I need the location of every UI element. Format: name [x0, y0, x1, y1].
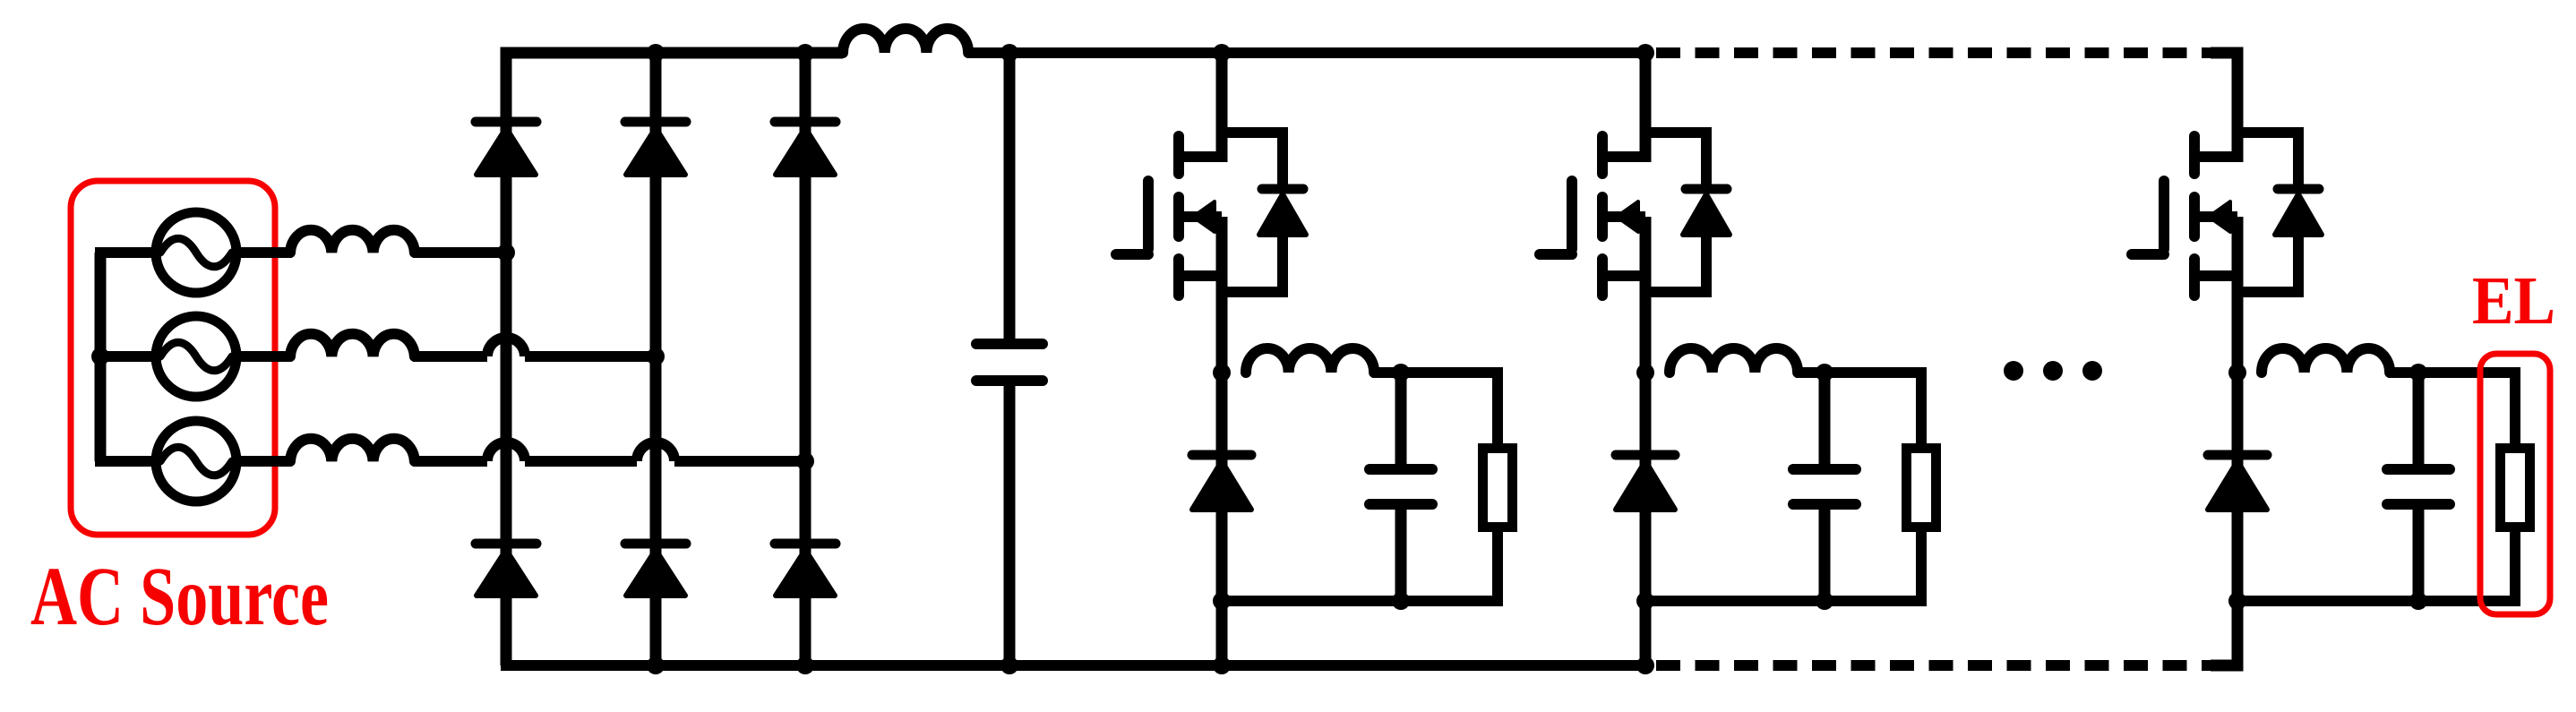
junction dot: stage 2 leg / bottom bus	[1636, 656, 1654, 674]
AC voltage source V1: sine symbol	[160, 238, 232, 267]
MOSFET Q1 arrow head	[1193, 202, 1215, 232]
junction dot: stage 2 rail / switch leg	[1636, 592, 1654, 610]
AC Source red boundary box	[71, 181, 275, 535]
wire: neutral bus (left vertical)	[95, 253, 107, 461]
inductor Ldc (DC-link inductor on top bus)	[843, 29, 968, 53]
wire: neutral stub to source V2	[95, 351, 159, 362]
svg-text:EL: EL	[2472, 263, 2555, 339]
wire: stage 2 drain leg from top bus	[1640, 53, 1652, 162]
wire: stage 3 leg to dashed bottom bus	[2211, 601, 2237, 665]
wire: capacitor C3 upper leg	[2413, 373, 2425, 464]
MOSFET Q2 arrow head	[1617, 202, 1638, 232]
junction dot: stage 2 switch node	[1636, 364, 1654, 382]
wire: capacitor C3 lower leg	[2413, 510, 2425, 601]
junction dot: neutral bus / phase B	[91, 347, 109, 365]
diode D5 (lower rectifier leg 2)	[625, 539, 686, 549]
wire: stage 1 drain leg from top bus	[1216, 53, 1228, 162]
EL load resistor	[2501, 449, 2530, 528]
wire: phase C to first hop	[413, 456, 487, 467]
junction dot: stage 3 rail / capacitor	[2409, 592, 2427, 610]
diode D2 (upper rectifier leg 2)	[625, 117, 686, 127]
wire: stage 3 drain corner from dashed top bus	[2211, 53, 2237, 162]
inductor L2 (buck filter)	[1670, 348, 1798, 373]
wire: phase A from source to inductor	[233, 247, 292, 258]
MOSFET Q3 gate lead	[2132, 249, 2164, 260]
MOSFET Q3 gate bar	[2159, 181, 2169, 249]
MOSFET Q3 body arrow stub	[2198, 211, 2237, 222]
capacitor C1 top plate	[1370, 464, 1432, 475]
junction dot: stage 2 output node	[1816, 364, 1833, 382]
junction dot: stage 1 rail / capacitor	[1392, 592, 1410, 610]
capacitor C2 top plate	[1793, 464, 1856, 475]
inductor Ls3 (line inductor phase)	[290, 439, 415, 461]
wire: phase B to hop	[413, 351, 487, 362]
AC voltage source V3: circle	[156, 421, 236, 502]
wire: stage 1 inductor to load corner	[1372, 373, 1498, 450]
body diode of Q2	[1686, 184, 1727, 194]
AC voltage source V2: sine symbol	[160, 342, 232, 371]
wire hop: phase C over leg 1	[487, 442, 525, 461]
wire: phase C between hops	[525, 456, 637, 467]
wire: bottom bus (solid part)	[501, 660, 1653, 671]
AC voltage source V1: circle	[156, 212, 236, 293]
wire: capacitor C2 upper leg	[1819, 373, 1831, 464]
wire: rectifier leg 1 (vertical + top bus corner)	[506, 53, 843, 665]
capacitor C2 bottom plate	[1793, 499, 1856, 510]
AC voltage source V3: sine symbol	[160, 447, 232, 476]
capacitor Cdc bottom plate	[976, 375, 1043, 386]
wire: Cdc lower leg	[1004, 386, 1016, 665]
diode D1 (upper rectifier leg 1)	[476, 117, 537, 127]
diode D6 (lower rectifier leg 3)	[775, 539, 836, 549]
junction dot: stage 3 rail / switch leg	[2228, 592, 2246, 610]
EL red boundary box	[2480, 354, 2550, 614]
freewheeling diode Df3	[2208, 450, 2267, 460]
MOSFET Q1 body arrow stub	[1182, 211, 1222, 222]
wire: rectifier leg 3 (vertical)	[800, 53, 811, 665]
svg-text:AC Source: AC Source	[30, 551, 329, 643]
MOSFET Q3 drain stub	[2194, 151, 2237, 162]
wire: stage 3 inductor to load corner	[2388, 373, 2515, 450]
junction dot: leg 2 / bottom bus	[647, 656, 665, 674]
MOSFET Q1 channel bar (dashed)	[1173, 136, 1184, 174]
junction dot: phase A / leg 1	[497, 244, 515, 262]
MOSFET Q2 source stub	[1602, 270, 1645, 281]
junction dot: stage 2 rail / capacitor	[1816, 592, 1833, 610]
MOSFET Q3 body-diode branch bottom	[2237, 235, 2298, 292]
MOSFET Q1 source stub	[1179, 270, 1222, 281]
wire: phase B from source to inductor	[233, 351, 292, 362]
body diode of Q1	[1262, 184, 1303, 194]
diode D4 (lower rectifier leg 1)	[476, 539, 537, 549]
ellipsis dot 2 (more stages)	[2043, 361, 2063, 381]
wire: rectifier leg 2 (vertical)	[650, 53, 662, 665]
MOSFET Q2 gate bar	[1567, 181, 1577, 249]
inductor L1 (buck filter)	[1246, 348, 1374, 373]
capacitor Cdc top plate	[976, 339, 1043, 349]
MOSFET Q2 body-diode branch top	[1645, 133, 1706, 184]
wire: dashed top bus (repeated stages)	[1656, 47, 2214, 58]
junction dot: stage 3 output node	[2409, 364, 2427, 382]
resistor R1 (load)	[1483, 449, 1513, 528]
junction dot: leg 3 / top bus	[796, 44, 814, 62]
inductor Ls2 (line inductor phase)	[290, 334, 415, 356]
junction dot: phase B / leg 2	[647, 347, 665, 365]
wire: phase C to rectifier leg 3	[674, 456, 805, 467]
MOSFET Q1 drain stub	[1179, 151, 1222, 162]
capacitor C3 bottom plate	[2387, 499, 2450, 510]
MOSFET Q3 arrow head	[2209, 202, 2230, 232]
MOSFET Q2 drain stub	[1602, 151, 1645, 162]
junction dot: leg 3 / bottom bus	[796, 656, 814, 674]
junction dot: stage 1 leg / bottom bus	[1213, 656, 1231, 674]
wire: neutral stub to source V3	[95, 456, 159, 467]
junction dot: stage 1 drain / top bus	[1213, 44, 1231, 62]
wire: neutral stub to source V1	[95, 247, 159, 258]
ellipsis dot 3 (more stages)	[2082, 361, 2102, 381]
wire: capacitor C1 lower leg	[1395, 510, 1407, 601]
wire: phase C from source to inductor	[233, 456, 292, 467]
wire: phase A to rectifier leg 1	[413, 247, 506, 258]
AC voltage source V2: circle	[156, 316, 236, 397]
body diode of Q3	[2278, 184, 2319, 194]
wire: stage 1 load leg and return rail	[1222, 526, 1498, 601]
wire: stage 3 switch-node vertical	[2232, 217, 2244, 601]
wire: stage 2 switch-node vertical	[1640, 217, 1652, 665]
ellipsis dot 1 (more stages)	[2004, 361, 2023, 381]
junction dot: leg 2 / top bus	[647, 44, 665, 62]
wire: Cdc upper leg	[1004, 53, 1016, 339]
capacitor C1 bottom plate	[1370, 499, 1432, 510]
MOSFET Q1 gate bar	[1143, 181, 1154, 249]
wire: stage 2 load leg and return rail	[1645, 526, 1921, 601]
resistor R2 (load)	[1907, 449, 1936, 528]
junction dot: Cdc / bottom bus	[1000, 656, 1018, 674]
wire: capacitor C1 upper leg	[1395, 373, 1407, 464]
diode D3 (upper rectifier leg 3)	[775, 117, 836, 127]
junction dot: stage 1 switch node	[1213, 364, 1231, 382]
wire: top bus from Ldc to stage 2	[968, 47, 1653, 58]
MOSFET Q1 body-diode branch top	[1222, 133, 1283, 184]
wire: phase B to rectifier leg 2	[525, 351, 656, 362]
junction dot: stage 1 output node	[1392, 364, 1410, 382]
inductor Ls1 (line inductor phase)	[290, 230, 415, 253]
freewheeling diode Df2	[1616, 450, 1675, 460]
junction dot: stage 3 switch node	[2228, 364, 2246, 382]
junction dot: stage 2 drain / top bus	[1636, 44, 1654, 62]
MOSFET Q3 source stub	[2194, 270, 2237, 281]
MOSFET Q3 channel bar (dashed)	[2189, 136, 2200, 174]
wire hop: phase B over leg 1	[487, 338, 525, 356]
MOSFET Q2 body-diode branch bottom	[1645, 235, 1706, 292]
MOSFET Q2 body arrow stub	[1606, 211, 1645, 222]
junction dot: phase C / leg 3	[796, 452, 814, 470]
wire: stage 3 load leg and return rail	[2237, 526, 2515, 601]
wire: capacitor C2 lower leg	[1819, 510, 1831, 601]
wire: stage 2 inductor to load corner	[1796, 373, 1921, 450]
MOSFET Q2 channel bar (dashed)	[1597, 136, 1608, 174]
freewheeling diode Df1	[1192, 450, 1251, 460]
MOSFET Q1 body-diode branch bottom	[1222, 235, 1283, 292]
capacitor C3 top plate	[2387, 464, 2450, 475]
wire: stage 1 switch-node vertical	[1216, 217, 1228, 665]
MOSFET Q3 body-diode branch top	[2237, 133, 2298, 184]
MOSFET Q2 gate lead	[1540, 249, 1572, 260]
MOSFET Q1 gate lead	[1116, 249, 1148, 260]
wire hop: phase C over leg 2	[637, 442, 674, 461]
inductor L3 (buck filter)	[2262, 348, 2390, 373]
wire: dashed bottom bus (repeated stages)	[1656, 660, 2214, 671]
junction dot: Cdc / top bus	[1000, 44, 1018, 62]
junction dot: stage 1 rail / switch leg	[1213, 592, 1231, 610]
